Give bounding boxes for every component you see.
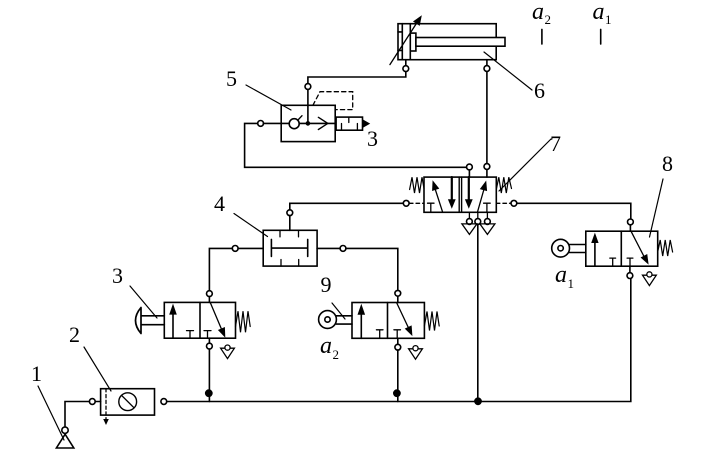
- valve 7 right down arrow: [468, 177, 470, 200]
- leader line 6: [484, 52, 532, 90]
- shuttle seats: [271, 239, 307, 256]
- valve 3 top port: [207, 291, 213, 297]
- valve 7 left T: [428, 203, 435, 212]
- valve 5 left wire: [264, 122, 282, 124]
- valve 7 left down arrow: [451, 177, 453, 200]
- port circle: [89, 399, 95, 405]
- leader line 3: [130, 286, 157, 318]
- leader line 1: [38, 386, 64, 440]
- wire 5 to valve 7 top-left: [245, 123, 467, 167]
- valve 7 supply riser: [477, 224, 479, 401]
- tick a1: [600, 29, 602, 44]
- valve 7 right T: [484, 203, 491, 212]
- junction dot A: [205, 389, 213, 397]
- label a2 top: [532, 0, 551, 27]
- cylinder rod flange: [410, 33, 416, 51]
- valve 7 left spring: [410, 177, 424, 193]
- valve 7 exhaust right: [480, 224, 495, 235]
- cylinder left port: [405, 60, 407, 66]
- valve 9 divider: [387, 303, 389, 339]
- unit 2 right port circle: [161, 399, 167, 405]
- svg-text:5: 5: [226, 66, 237, 91]
- throttle check valve 5: [281, 105, 335, 141]
- label 3 silencer: [367, 126, 378, 151]
- valve 7 top-left port: [467, 164, 473, 170]
- svg-text:a: a: [532, 0, 544, 25]
- valve 8 up arrow: [594, 239, 596, 267]
- valve 3 bottom port: [207, 343, 213, 349]
- valve 7 right pilot: [496, 202, 511, 204]
- valve 9 roller: [319, 311, 337, 329]
- label 8: [662, 151, 673, 176]
- label 5: [226, 66, 237, 91]
- valve 9 diagonal arrow: [397, 303, 410, 330]
- valve 5 dashed pilot: [313, 92, 353, 110]
- label 3: [112, 263, 123, 288]
- wire cylinder right to valve 7: [486, 71, 488, 163]
- cylinder rod: [416, 38, 505, 47]
- air service unit 2: [101, 389, 155, 415]
- cylinder cushion lines: [398, 24, 402, 60]
- cylinder 6 body: [398, 24, 496, 60]
- shuttle top wire: [289, 216, 291, 231]
- svg-text:4: 4: [214, 191, 225, 216]
- valve 7 right diagonal arrow: [477, 187, 484, 212]
- bus wire bottom: [167, 279, 631, 402]
- valve 5 dot: [306, 121, 311, 126]
- cylinder piston: [409, 24, 411, 60]
- valve 5 chevron: [318, 117, 327, 129]
- unit 2 drain arrow: [103, 419, 109, 425]
- shuttle ticks: [280, 230, 299, 266]
- unit 2 slash: [122, 395, 134, 407]
- valve 7 top-right port: [484, 164, 490, 170]
- svg-text:1: 1: [568, 276, 575, 291]
- valve 3 bottom wire: [208, 349, 210, 402]
- valve 8 spring: [658, 240, 673, 256]
- valve 8 divider: [620, 231, 622, 266]
- valve 3 body: [164, 302, 235, 338]
- svg-text:7: 7: [550, 131, 561, 156]
- valve 7 exhaust left: [462, 224, 477, 235]
- label 7: [550, 131, 561, 156]
- label a1 top: [593, 0, 612, 27]
- svg-text:3: 3: [112, 263, 123, 288]
- wire: [95, 401, 100, 403]
- supply source 1: [56, 434, 73, 448]
- tick a2: [541, 29, 543, 44]
- leader line 5: [246, 85, 291, 110]
- silencer tip: [363, 119, 371, 128]
- cylinder adjust arrow: [390, 21, 418, 65]
- leader line 4: [234, 214, 268, 237]
- svg-text:1: 1: [605, 12, 612, 27]
- svg-text:1: 1: [31, 361, 42, 386]
- cylinder right port: [486, 60, 488, 66]
- valve 9 exhaust: [409, 349, 423, 359]
- junction dot C: [474, 397, 482, 405]
- valve 7 left diagonal arrow: [435, 187, 443, 212]
- wire supply to unit 2: [65, 402, 89, 428]
- valve 3 T right: [204, 331, 211, 339]
- unit 2 dashed drain line: [105, 389, 107, 419]
- valve 3 up arrow: [172, 310, 174, 338]
- valve 7 dividers: [459, 177, 461, 212]
- svg-text:6: 6: [534, 78, 545, 103]
- svg-text:3: 3: [367, 126, 378, 151]
- svg-text:2: 2: [545, 12, 552, 27]
- valve 8 roller: [552, 239, 570, 257]
- label a2 lower: [320, 333, 339, 362]
- valve 8 T left: [610, 258, 616, 266]
- valve 9 spring: [424, 312, 439, 331]
- valve 3 spring: [236, 311, 251, 332]
- valve 8 bottom port: [627, 273, 633, 279]
- valve 8 exhaust: [643, 275, 657, 285]
- wire 5 to cylinder left: [308, 72, 406, 84]
- valve 8 body: [586, 231, 658, 266]
- leader line 2: [84, 347, 111, 391]
- label 9: [321, 272, 332, 297]
- valve 9 top port: [395, 290, 401, 296]
- leader line 9: [332, 303, 345, 319]
- valve 7 body: [424, 177, 496, 212]
- valve 9 body: [352, 303, 424, 339]
- valve 9 T left: [376, 330, 383, 339]
- valve 9 up arrow: [360, 310, 362, 338]
- label 6: [534, 78, 545, 103]
- leader line 8: [650, 179, 664, 237]
- supply port circle: [62, 427, 68, 433]
- valve 8 diagonal arrow: [631, 232, 645, 259]
- leader line 7: [499, 139, 551, 191]
- valve 9 bottom port: [395, 344, 401, 350]
- unit 2 regulator circle: [119, 393, 137, 411]
- label a1 lower: [555, 262, 574, 291]
- silencer 3: [336, 117, 362, 130]
- label 4: [214, 191, 225, 216]
- valve 7 left pilot: [403, 200, 409, 206]
- valve 8 T right: [627, 258, 633, 266]
- svg-text:9: 9: [321, 272, 332, 297]
- svg-text:a: a: [320, 333, 332, 359]
- valve 5 flow line: [281, 122, 335, 124]
- valve 3 exhaust: [221, 348, 235, 358]
- svg-text:a: a: [555, 262, 567, 288]
- label 1: [31, 361, 42, 386]
- valve 5 check ball: [289, 119, 299, 129]
- svg-text:2: 2: [69, 322, 80, 347]
- valve 7 bottom ports: [469, 212, 487, 218]
- valve 3 diagonal arrow: [210, 303, 222, 332]
- svg-text:a: a: [593, 0, 605, 25]
- valve 7 right spring: [496, 177, 511, 193]
- valve 9 bottom wire: [397, 350, 399, 401]
- pilot wire to valve 8: [517, 203, 631, 219]
- valve 5 top port: [307, 89, 309, 123]
- valve 3 T left: [187, 331, 194, 339]
- svg-text:2: 2: [333, 347, 340, 362]
- valve 3 divider: [199, 302, 201, 338]
- shuttle right wire: [317, 247, 340, 249]
- shuttle valve 4: [263, 230, 317, 266]
- label 2: [69, 322, 80, 347]
- shuttle left wire: [238, 247, 263, 249]
- svg-text:8: 8: [662, 151, 673, 176]
- valve 9 T right: [394, 330, 401, 339]
- valve 8 top port: [628, 219, 634, 225]
- valve 3 push button: [136, 308, 165, 334]
- junction dot B: [393, 389, 401, 397]
